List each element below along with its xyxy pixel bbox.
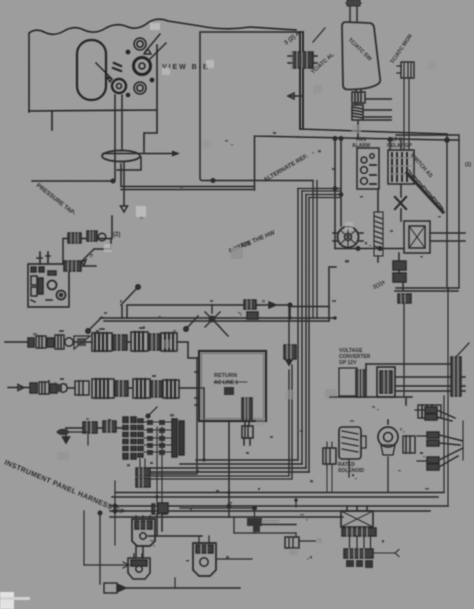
toggle switch T1 [89,317,102,330]
panel stub [51,112,53,130]
connector below ECM [245,421,249,426]
band jog wires y188-197 [298,189,341,198]
connector stack under [393,253,406,282]
row1 tiny labels [60,328,144,331]
box bottom y291 [395,282,458,291]
ground hatch conns [83,422,97,433]
wire W2 double [121,136,298,190]
top-right small connector [397,62,414,150]
connector mid with arrow [284,345,296,365]
small conn on bus [158,503,168,513]
scan smudge patches [57,23,436,460]
bottom wire y249 [335,248,404,250]
fuel solenoid [339,427,366,459]
round sender [378,420,398,455]
step lines right of ellipse [103,153,173,155]
instrument panel outline [29,19,296,112]
long wire y130 [300,129,447,134]
sensor S1 [132,516,155,546]
relay box RB1 [357,148,379,189]
bolt blob [113,63,121,71]
row2 tail [179,388,204,460]
B1 pigtail top [37,252,50,264]
long verticals x298-309 [298,189,309,473]
wires right of VC [366,364,465,391]
big rectangle top-center [200,32,313,181]
resistor hatch column [374,212,383,256]
X-box relay [404,221,430,253]
wire drops x313 x317 to bus [313,181,317,319]
label VIEW B [162,64,208,71]
wire y305 middle [212,304,258,306]
toggle switch T2 [121,288,137,305]
wire drops from solenoid and sender [349,457,388,492]
B1 right hatch [64,261,81,271]
double bus y318 [100,318,335,321]
comp bottom mid [285,500,322,555]
big rect right edge thick [300,32,303,129]
gray patch [325,389,337,399]
wire drops from y138 [335,139,401,249]
connector circle c2 [134,58,151,75]
hatch conn on bundle [68,233,81,243]
wires right from stack [363,99,392,120]
central connector cluster columns [122,417,144,459]
row1 lead wire [5,341,28,343]
hatch conn 2 [87,231,97,241]
row1 connector chain [28,332,177,351]
row2 lead arrow [8,385,29,391]
connector on rect edge J1 [288,52,317,68]
control box B1 [28,264,69,307]
long bus wires [112,493,444,498]
mid-left section [28,231,336,336]
wires right from X-box [430,233,465,241]
ground wire [66,427,124,429]
pointer diag right [456,343,469,357]
connector circle c1 [134,38,146,50]
pointer J1 label [313,28,325,42]
grommet ellipse [102,151,140,162]
trapezoid console [342,0,380,90]
stack below trapezoid [356,90,361,93]
relay K1 [341,506,399,568]
VC box 2 [377,367,395,397]
coil component [352,105,363,120]
ground arrow [63,428,70,443]
row2 connector chain [30,379,179,398]
gauge oval [77,40,106,100]
toggle switch T3 [187,316,198,328]
ECM text underline [214,381,247,383]
ECM internal hatch connector [242,398,252,419]
X symbol [395,197,406,209]
row1 tail [177,342,199,358]
junction dots misc [155,316,336,501]
long wire top y138 [298,137,459,140]
cluster right columns [172,419,184,457]
sensor S2 [128,554,150,579]
connector circle c3 [134,82,146,94]
white page corner [0,592,14,609]
stack left stubs [415,410,427,461]
connectors 1A 4B [136,468,150,487]
tail vertical to wrap [150,358,197,474]
box B2 + arrow wire [98,511,240,593]
B1 inner parts [31,267,66,302]
vertical x84 [84,511,129,568]
pointer to c4 [96,63,112,82]
motor circle M1 [333,227,363,248]
cluster-to-1A4B stub wires [140,459,145,468]
right edge stacks [425,407,455,421]
wrap horizontals [150,460,309,472]
diagonal hatched cable [407,170,443,212]
hatch conn on y305 [244,300,258,319]
rotated text labels [3,30,471,516]
vertical pair x157 x162 [157,427,162,504]
sensor S3 [193,536,216,576]
stem [346,3,361,21]
wire panel down 2 [121,95,128,212]
voltage converter text block lines [339,368,357,396]
junction dots on y138 wire [333,137,337,141]
right edge hatch connector [451,357,461,396]
ECM box [199,351,266,421]
cluster right pins rows [147,420,165,455]
comp M [323,442,336,470]
right outer rect [396,135,459,288]
arrow into rect [288,93,302,99]
wire bundle above B1 [63,239,111,266]
ECM left edge pins [195,372,199,405]
ECM blob [224,387,234,395]
small comp right [403,436,415,453]
relay box RB2 [388,150,414,184]
cluster left bits [57,423,88,445]
connector circle c4 [112,79,126,93]
keyswitch [205,305,228,336]
wire panel down 1 [32,95,115,181]
left vertical x115 [114,481,116,545]
pointer X top-right [144,34,166,59]
bolt dots [126,50,129,53]
bottom wire y397 [330,397,412,405]
ring conn [98,233,106,241]
comp L on bus [180,506,296,533]
vertical from ECM bottom [228,421,230,517]
panel bottom edge [29,45,157,152]
small relay R2 [418,405,441,418]
